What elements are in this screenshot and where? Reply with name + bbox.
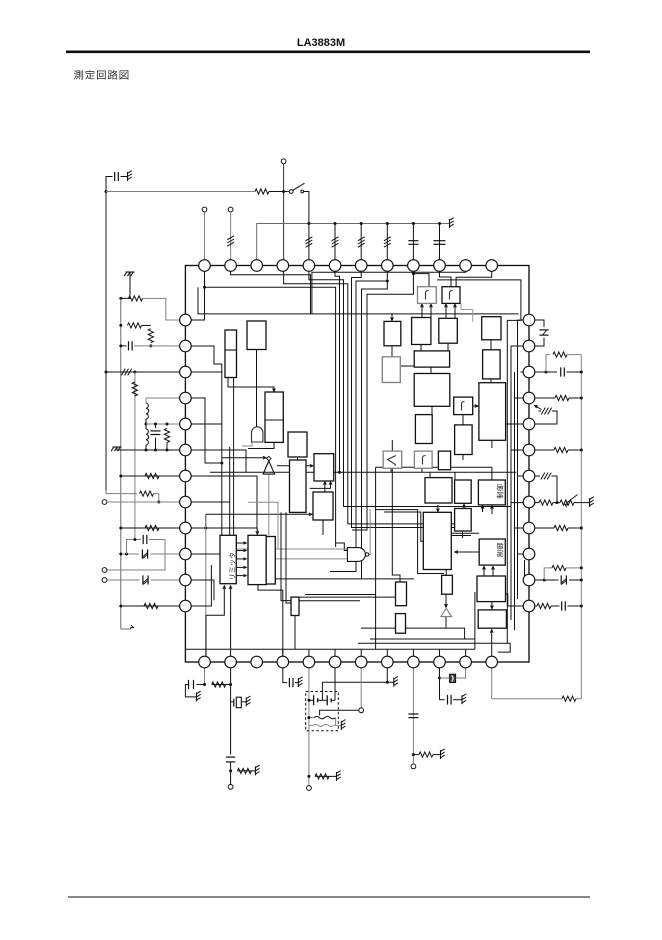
wire L9 internal xyxy=(185,527,257,529)
wire bus 467 xyxy=(376,467,492,480)
block xyxy=(477,576,506,602)
node xyxy=(282,190,285,193)
wire to limiter top a xyxy=(221,364,223,535)
capacitor xyxy=(561,601,563,610)
wire bundle 1 to NAND xyxy=(336,543,349,551)
pin R8 (right) xyxy=(523,496,535,508)
wire xyxy=(539,410,542,412)
battery lead xyxy=(309,699,314,701)
wire xyxy=(121,345,127,347)
waveform glyph xyxy=(423,456,426,465)
resistor xyxy=(164,429,169,443)
capacitor xyxy=(226,756,235,758)
wire blk36 top xyxy=(445,570,447,576)
block xyxy=(396,582,407,606)
arrowhead xyxy=(329,482,332,485)
pin L12 (left) xyxy=(180,600,192,612)
wire bus c xyxy=(358,643,510,652)
wire xyxy=(151,579,185,581)
capacitor xyxy=(188,680,190,689)
wire xyxy=(334,224,336,266)
node xyxy=(145,423,148,426)
wire xyxy=(142,324,151,326)
comparator diamond xyxy=(267,456,271,461)
arrowhead xyxy=(244,566,247,568)
wire to block8 xyxy=(206,513,311,515)
block xyxy=(425,478,452,503)
resistor xyxy=(148,329,153,343)
wire pin L10 xyxy=(121,553,139,555)
node xyxy=(307,716,310,719)
wire pin drop xyxy=(465,649,467,663)
pin L8 (left) xyxy=(180,496,192,508)
arrowhead xyxy=(273,388,276,391)
arrowhead xyxy=(244,558,247,560)
wire L2 stub xyxy=(185,346,221,364)
wire xyxy=(230,762,232,785)
wire R5 internal xyxy=(506,423,529,425)
node xyxy=(133,538,136,541)
wire pin drop xyxy=(439,649,441,663)
wire pin B5 drop xyxy=(308,663,310,786)
node xyxy=(307,222,310,225)
wire ctl2 feed xyxy=(462,530,464,538)
pin B3 (bottom) xyxy=(251,656,263,668)
block xyxy=(455,509,472,532)
wire pin L4 loop xyxy=(146,398,185,403)
header rule xyxy=(66,51,590,54)
terminal xyxy=(228,207,233,212)
terminal xyxy=(411,764,416,769)
wire blk14 out xyxy=(391,346,393,357)
NAND bubble xyxy=(366,553,369,556)
wire R6 internal xyxy=(511,449,529,451)
wire R12 internal xyxy=(506,594,530,606)
block xyxy=(478,610,506,628)
node xyxy=(105,371,108,374)
wire blk10 out to B4 xyxy=(258,585,283,663)
wire pin9 to curvebox xyxy=(413,274,429,287)
pin 3 (top) xyxy=(251,260,263,272)
waveform box xyxy=(414,451,432,468)
IC package outline U1 xyxy=(185,266,529,663)
wire switch to pin5 xyxy=(304,192,309,224)
wire blk36 chain xyxy=(445,594,447,608)
arrowhead xyxy=(491,605,494,608)
wire L7 internal xyxy=(185,476,257,533)
pin 5 (top) xyxy=(303,260,315,272)
limiter block xyxy=(220,535,236,583)
wire wave box down xyxy=(421,468,423,472)
wire blk16 out xyxy=(447,343,449,351)
wire blk33 right links xyxy=(451,532,479,534)
pin 8 (top) xyxy=(382,260,394,272)
wire blk29 to blk33 xyxy=(437,505,439,511)
wire R10 internal xyxy=(518,553,529,555)
pin B6 (bottom) xyxy=(329,656,341,668)
block xyxy=(412,318,431,345)
block xyxy=(415,415,432,444)
wire rbox out xyxy=(473,405,479,407)
wire pin L9 xyxy=(121,527,186,529)
wire xyxy=(412,224,414,266)
pin 1 (top) xyxy=(199,260,211,272)
arrowhead xyxy=(437,509,440,512)
wire pin R11 xyxy=(529,579,559,581)
limiter output xyxy=(236,558,244,560)
wire pin B7 xyxy=(360,663,362,708)
pin R2 (right) xyxy=(523,340,535,352)
wire R9 internal xyxy=(515,527,530,529)
wire xyxy=(451,535,471,537)
pin R5 (right) xyxy=(523,418,535,430)
capacitor xyxy=(288,678,290,687)
limiter output xyxy=(236,566,244,568)
wire xyxy=(440,677,450,679)
block xyxy=(414,374,450,407)
capacitor xyxy=(560,367,562,376)
ground xyxy=(340,721,342,730)
wire xyxy=(567,371,582,373)
wire top-left cap branch xyxy=(106,177,113,192)
wire R4 internal xyxy=(515,397,530,399)
wire xyxy=(295,682,298,684)
limiter output xyxy=(236,542,244,544)
wire terminal to pin4 xyxy=(283,164,285,266)
wire L8 stub xyxy=(185,501,229,503)
block xyxy=(225,330,237,378)
wire pin2 internal xyxy=(231,266,311,314)
wire blk2 down to AND xyxy=(256,350,258,428)
wire blk5 link xyxy=(297,457,299,460)
component (hatched) xyxy=(541,473,545,480)
wire B12 internal xyxy=(491,631,493,658)
arrowhead xyxy=(491,506,494,509)
wire pin L12 xyxy=(121,605,186,607)
wire R1 internal xyxy=(518,319,530,321)
wire pin drop xyxy=(282,649,284,663)
wire branch xyxy=(127,540,142,555)
wire1 feed xyxy=(106,191,255,193)
resistor xyxy=(315,774,329,779)
node xyxy=(119,297,122,300)
capacitor (polarized) xyxy=(560,575,562,584)
wire xyxy=(151,553,186,555)
wire xyxy=(309,724,313,726)
wire xyxy=(237,770,255,772)
wire pin R4 xyxy=(529,397,555,399)
wire blk19 out xyxy=(430,367,432,373)
node xyxy=(133,371,136,374)
pin L9 (left) xyxy=(180,522,192,534)
comparator box xyxy=(383,451,402,468)
crystal X1 plate xyxy=(233,699,235,707)
footer rule xyxy=(68,897,590,898)
wire gray nand in1b xyxy=(278,548,349,550)
pin R4 (right) xyxy=(523,392,535,404)
resistor xyxy=(419,752,433,757)
capacitor xyxy=(408,713,418,715)
wire arrow into diamond xyxy=(222,457,265,459)
resistor R2 xyxy=(255,189,269,194)
rail A elbow xyxy=(106,491,137,494)
wire bus b xyxy=(370,638,475,640)
ground xyxy=(449,219,451,228)
resistor xyxy=(129,296,143,301)
coil (meter element) xyxy=(314,716,336,718)
wire blk15 out xyxy=(420,345,422,352)
AND gate (vertical) xyxy=(252,427,263,442)
wire pin R5 stub xyxy=(529,411,557,424)
resistor xyxy=(537,603,551,608)
node xyxy=(154,449,157,452)
wire vert x517 xyxy=(517,320,519,599)
wire xyxy=(145,419,147,429)
resistor (hatched) at pin 5 xyxy=(306,237,313,241)
pin L5 (left) xyxy=(180,418,192,430)
block divider xyxy=(265,419,283,421)
pot arrowhead xyxy=(565,504,568,507)
wire L12 stub xyxy=(185,565,211,606)
wire blk8 down xyxy=(322,520,324,535)
wire xyxy=(569,579,581,581)
battery right lead xyxy=(331,699,335,701)
block xyxy=(291,597,299,615)
battery mid lead xyxy=(318,699,328,701)
wire bottom bus to ground xyxy=(322,681,393,683)
node xyxy=(119,527,122,530)
battery cell plates xyxy=(313,695,315,705)
wire xyxy=(155,424,157,428)
resistor xyxy=(539,500,553,505)
wire pin L5 xyxy=(146,423,185,425)
resistor xyxy=(145,473,159,478)
wire L6 stub xyxy=(185,450,246,472)
block xyxy=(248,535,266,584)
wire xyxy=(185,685,196,697)
wire right rail C xyxy=(580,355,582,699)
wire blk8 to blk7b xyxy=(324,482,326,492)
node xyxy=(157,501,160,504)
block xyxy=(313,492,333,520)
wire bottom bus xyxy=(185,648,475,650)
wire xyxy=(308,224,310,266)
wire pin R8 xyxy=(529,502,539,504)
ground xyxy=(440,750,442,759)
pin L7 (left) xyxy=(180,470,192,482)
wire gray nand in2 xyxy=(275,558,348,560)
wire xyxy=(309,717,314,719)
arrowhead xyxy=(430,304,433,307)
switch S1 contact xyxy=(301,190,304,193)
arrowhead xyxy=(445,604,448,607)
resistor xyxy=(144,603,158,608)
wire terminal to pin1 xyxy=(204,212,206,266)
wire bundle 6 (pin8) xyxy=(330,266,387,572)
wire mid bus xyxy=(210,471,516,473)
node xyxy=(119,344,122,347)
block xyxy=(384,321,401,345)
wire blk1 down to blk3 xyxy=(228,378,274,391)
node xyxy=(119,475,122,478)
component (hatched) xyxy=(541,408,545,415)
wire xyxy=(335,718,337,726)
wire pin R7 xyxy=(529,475,540,477)
wire bundle 7 (pin8b) xyxy=(362,281,388,579)
resistor xyxy=(554,447,568,452)
wire xyxy=(439,224,441,266)
resistor xyxy=(554,525,568,530)
arrowhead xyxy=(391,317,394,320)
wire2 bus from pin3 xyxy=(257,224,450,266)
terminal xyxy=(307,786,312,791)
waveform glyph xyxy=(426,291,429,300)
wire ctl2 to blk33 xyxy=(456,551,479,553)
node xyxy=(119,324,122,327)
wire vert x474 xyxy=(474,592,476,649)
wire xyxy=(212,684,231,686)
wire xyxy=(413,754,419,756)
node xyxy=(166,449,169,452)
node xyxy=(580,449,583,452)
pin 9 (top) xyxy=(408,260,420,272)
resistor (hatched) at pin 6 xyxy=(332,237,339,241)
wire xyxy=(155,438,157,451)
node xyxy=(580,579,583,582)
wire gray elbow xyxy=(461,303,473,322)
arrowhead xyxy=(492,567,495,570)
block xyxy=(314,454,334,481)
node xyxy=(307,699,310,702)
wire xyxy=(568,605,582,607)
wire L4 stub xyxy=(185,398,221,463)
node xyxy=(386,222,389,225)
pin B5 (bottom) xyxy=(303,656,315,668)
arrowhead xyxy=(483,567,486,570)
svg-text:LA3883M: LA3883M xyxy=(297,37,345,49)
wire xyxy=(440,699,445,701)
block xyxy=(479,383,506,441)
wire xyxy=(569,397,581,399)
wire terminal to pin2 xyxy=(230,212,232,266)
wire xyxy=(492,698,562,700)
resistor xyxy=(552,565,566,570)
wire gray nand in1 xyxy=(236,545,278,550)
wire vert x511 xyxy=(510,346,512,620)
pin B10 (bottom) xyxy=(434,656,446,668)
pin 7 (top) xyxy=(355,260,367,272)
wire pin1 internal xyxy=(205,266,336,548)
capacitor xyxy=(151,430,161,432)
wire blk6 drop b xyxy=(286,512,291,603)
wire xyxy=(552,476,558,503)
wire blk3 out xyxy=(248,442,274,448)
pin R11 (right) xyxy=(523,574,535,586)
wire ctl1 in a xyxy=(482,506,484,512)
wire pin B9 drop xyxy=(412,663,414,764)
limiter output xyxy=(236,575,244,577)
wire blk20 out xyxy=(431,406,433,414)
wire pin B8 drop xyxy=(386,663,388,682)
wire xyxy=(567,354,581,356)
control block xyxy=(478,480,505,505)
resistor (hatched) at pin 8 xyxy=(384,237,391,241)
arrowhead xyxy=(263,456,266,459)
wire L1 internal xyxy=(185,287,204,320)
wire xyxy=(566,567,581,569)
wire xyxy=(568,449,581,451)
node xyxy=(203,286,206,289)
wire xyxy=(453,699,462,701)
wire blk14 in xyxy=(391,314,393,320)
ground xyxy=(461,695,463,704)
arrowhead xyxy=(475,405,478,408)
resistor xyxy=(140,491,154,496)
inductor xyxy=(146,403,149,419)
NAND gate xyxy=(347,548,365,562)
wire pin R6 xyxy=(529,449,554,451)
wire pin B4 xyxy=(283,663,287,683)
wire R8 internal xyxy=(511,502,529,504)
coil (meter element) xyxy=(313,724,334,726)
ground xyxy=(113,446,122,448)
wire curvebox1 feeds xyxy=(421,305,423,318)
waveform box xyxy=(442,287,460,304)
wire R2 internal xyxy=(511,345,529,347)
wire pin L8 xyxy=(107,501,185,503)
pin L4 (left) xyxy=(180,392,192,404)
capacitor (polarized) xyxy=(141,549,143,558)
arrowhead xyxy=(455,551,458,554)
amplifier (triangle) xyxy=(263,461,275,474)
block xyxy=(288,432,307,457)
wire drop xyxy=(134,372,136,540)
pin R3 (right) xyxy=(523,366,535,378)
arrowhead xyxy=(229,586,232,589)
wire L3 stub xyxy=(185,371,221,373)
wire bundle 5 (pin7) xyxy=(352,266,455,528)
wire pin R3 xyxy=(529,371,557,373)
node xyxy=(360,222,363,225)
wire gray nand path xyxy=(248,502,278,544)
wire L10 stub xyxy=(185,553,220,555)
wire xyxy=(456,663,466,678)
terminal xyxy=(228,784,233,789)
arrowhead xyxy=(324,482,327,485)
wire xyxy=(454,305,456,319)
wire top bus xyxy=(198,287,519,314)
arrowhead xyxy=(481,506,484,509)
waveform glyph xyxy=(450,291,453,300)
pin B11 (bottom) xyxy=(460,656,472,668)
wire xyxy=(386,224,388,266)
wire right riser xyxy=(437,280,521,643)
wire coil1 feed xyxy=(320,710,359,715)
wire xyxy=(360,224,362,266)
wire blk23 down xyxy=(490,379,492,383)
block xyxy=(483,350,501,379)
block xyxy=(265,392,283,442)
wire left rail A xyxy=(105,192,107,491)
wire L9 drop xyxy=(205,514,207,663)
block xyxy=(266,537,275,585)
wire left rail B xyxy=(120,298,122,629)
terminal xyxy=(359,708,364,713)
node xyxy=(580,397,583,400)
pin R10 (right) xyxy=(523,548,535,560)
wire pin drop xyxy=(412,649,414,663)
inductor xyxy=(146,429,149,445)
